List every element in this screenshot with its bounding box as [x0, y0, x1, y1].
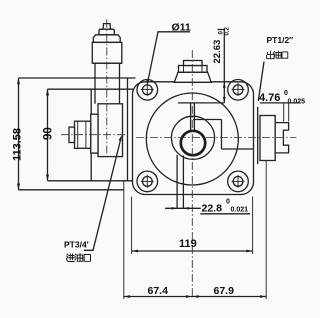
bolt hole pad arc [228, 171, 249, 192]
relief valve lock nut [93, 35, 120, 43]
pump body base extension line [19, 189, 125, 191]
front valve hex nut [179, 66, 208, 73]
svg-text:113.58: 113.58 [11, 128, 23, 161]
bolt hole pad arc [137, 80, 158, 101]
pump housing circle [146, 93, 238, 185]
relief valve lower cylinder [94, 63, 96, 104]
svg-text:0.2: 0.2 [225, 26, 231, 35]
relief valve cap [99, 29, 114, 35]
inlet pipe tip [69, 127, 75, 142]
svg-text:PT3/4′: PT3/4′ [64, 240, 89, 250]
svg-text:22.63: 22.63 [212, 40, 223, 64]
dimension 119 line [132, 250, 253, 252]
front valve base [174, 72, 211, 82]
mounting flange plate [133, 82, 254, 195]
svg-text:0: 0 [226, 199, 230, 206]
svg-text:119: 119 [179, 238, 197, 250]
dimension 67.4/67.9 line [124, 296, 266, 298]
label outlet port (chinese) [267, 51, 274, 59]
bolt hole pad arc [228, 80, 249, 101]
dimension 67.4/67.9 extension lines [123, 181, 125, 299]
svg-text:0: 0 [284, 90, 288, 97]
pump body side view bottom line [48, 180, 134, 182]
outlet port block [260, 116, 275, 161]
relief valve vertical centerline [106, 20, 108, 158]
bolt hole pad arc [137, 171, 158, 192]
groove extension lines [283, 103, 285, 122]
outlet port plate edge [257, 107, 259, 164]
pilot bore circle [171, 116, 214, 159]
dimension 22.8 line [165, 207, 201, 209]
svg-text:67.9: 67.9 [214, 285, 235, 297]
svg-text:67.4: 67.4 [148, 285, 169, 297]
pump body side view upper line [48, 88, 134, 90]
main horizontal centerline [136, 137, 297, 139]
shaft circle [181, 131, 205, 155]
inlet leader line [84, 137, 121, 251]
relief valve body cylinder [92, 42, 122, 63]
bolt hole [233, 177, 243, 187]
svg-text:0.021: 0.021 [231, 207, 249, 214]
svg-text:0.025: 0.025 [288, 99, 306, 106]
shaft extension lines below [176, 155, 178, 208]
svg-text:22.8: 22.8 [202, 203, 223, 215]
diameter 11 leader [148, 32, 190, 83]
svg-text:4.76: 4.76 [259, 92, 280, 104]
label inlet port (chinese) [66, 254, 74, 262]
svg-text:90: 90 [43, 127, 55, 140]
keyway top line [178, 102, 224, 104]
bolt hole [142, 177, 152, 187]
dimension 113.58 line [18, 78, 20, 190]
bolt hole [233, 85, 243, 95]
inlet port boss [98, 104, 123, 157]
pump body left edge [90, 89, 92, 181]
svg-text:PT1/2″: PT1/2″ [267, 35, 294, 45]
dimension 90 line [47, 89, 49, 181]
bolt hole [142, 85, 152, 95]
outlet leader line [258, 62, 264, 102]
pump body inner edge [127, 78, 129, 181]
main vertical centerline [191, 50, 193, 297]
side view horizontal centerline [61, 134, 128, 136]
front valve top [184, 61, 203, 66]
dimension 119 extension lines [131, 197, 133, 255]
inlet fitting collar [91, 114, 98, 153]
inlet hex nut [75, 121, 91, 148]
pump body side view top line [19, 77, 136, 79]
dimension 22.63 line [223, 30, 225, 103]
relief valve cap nub [103, 24, 111, 30]
internal passage step [193, 119, 222, 121]
keyway slot lines [190, 103, 192, 132]
outlet port threaded end [275, 123, 288, 153]
